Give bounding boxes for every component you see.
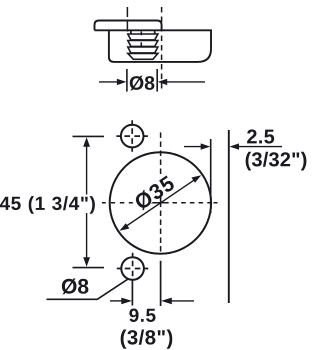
- dim Ø8 (top) extension line right: [156, 69, 158, 92]
- screw hole top crosshair: [116, 120, 147, 152]
- label Ø35 background mask: [129, 172, 176, 211]
- dim Ø35 arrowhead lower left: [120, 223, 130, 231]
- label (3/32"): [246, 152, 307, 171]
- cup hole circle Ø35: [110, 152, 211, 253]
- dim Ø35 diagonal line: [126, 180, 195, 227]
- dim 45 line upper segment: [86, 146, 88, 195]
- screw hole bottom crosshair: [117, 253, 149, 277]
- centerline right (flange edge axis, dashed): [161, 7, 163, 92]
- dim 45 extension line bottom: [73, 267, 105, 269]
- dim 9.5 arrow right: [170, 300, 194, 302]
- label 45 (1 3/4"): [0, 196, 95, 214]
- dim Ø8 (top) arrow left: [99, 81, 118, 83]
- dowel rib 3: [128, 47, 158, 53]
- label 9.5: [129, 309, 155, 323]
- dim Ø35 arrowhead upper right: [191, 175, 201, 183]
- dim 45 extension line top: [73, 135, 105, 137]
- dowel rib 4: [128, 53, 158, 59]
- extension line below bottom screw hole (9.5 dim left): [131, 280, 133, 305]
- dim 45 arrow down: [83, 257, 90, 267]
- screw hole bottom Ø8: [121, 257, 144, 280]
- dim Ø8 (top) extension line left: [126, 69, 128, 92]
- leader line Ø8 (bottom label): [47, 279, 128, 299]
- screw hole top Ø8: [121, 125, 144, 148]
- cup flange (side view top): [95, 21, 162, 31]
- dowel rib 2: [128, 41, 158, 47]
- centerline left (dowel axis, dashed): [126, 7, 128, 33]
- dim Ø8 (top) arrow right: [167, 81, 205, 83]
- label 2.5: [247, 129, 274, 143]
- door edge line: [228, 130, 230, 303]
- dim 45 arrow up: [83, 137, 90, 147]
- cup hole horizontal centerline: [102, 202, 218, 204]
- dowel centerline dashes: [140, 32, 142, 47]
- label Ø8 (screw holes): [62, 278, 89, 294]
- dim 2.5 arrow right and line under text: [239, 146, 283, 148]
- dowel neck: [131, 30, 155, 34]
- cup hole vertical centerline: [160, 132, 162, 251]
- cup body (side view): [95, 30, 212, 62]
- dim 2.5 extension line (cup edge): [210, 139, 212, 213]
- extension line below circle (9.5 dim right): [160, 261, 162, 306]
- label (3/8"): [121, 330, 173, 349]
- dowel rib 1: [128, 34, 158, 40]
- label Ø35: [133, 174, 176, 210]
- dim 45 line lower segment: [86, 213, 88, 259]
- dim 2.5 arrow left: [184, 146, 202, 148]
- label Ø8 (top view): [130, 76, 155, 91]
- dim 9.5 arrow left: [110, 300, 123, 302]
